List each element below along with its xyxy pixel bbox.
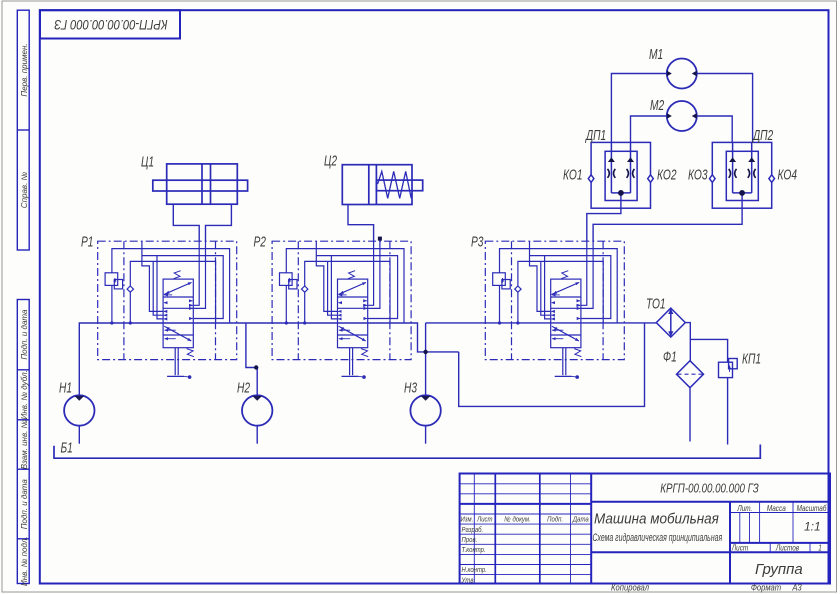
wire: pump H1 suction	[78, 426, 80, 444]
wire: filter F1 drain to tank	[689, 388, 691, 442]
flow divider DP1 with check throttles KO1 KO2	[588, 142, 653, 208]
svg-text:Перв. примен.: Перв. примен.	[20, 43, 29, 96]
valve P3	[485, 241, 624, 379]
left margin graph boxes	[17, 10, 29, 583]
svg-text:Изм.: Изм.	[461, 516, 474, 524]
svg-text:№ докум.: № докум.	[504, 515, 530, 524]
svg-text:М1: М1	[649, 45, 663, 63]
svg-text:Масса: Масса	[767, 503, 786, 513]
title block	[460, 474, 830, 584]
cylinder C2 (spring return)	[342, 165, 422, 205]
tank line B1	[54, 445, 760, 459]
svg-text:Лист: Лист	[731, 543, 748, 553]
pump H2	[242, 395, 272, 425]
relief valve KP1	[719, 359, 738, 378]
svg-text:Б1: Б1	[61, 438, 73, 456]
svg-text:КРГП-00.00.00.000 ГЗ: КРГП-00.00.00.000 ГЗ	[54, 17, 167, 32]
pump H3	[410, 395, 440, 425]
pump H1	[64, 395, 94, 425]
svg-text:КО2: КО2	[657, 165, 676, 183]
motor M2	[667, 101, 697, 131]
svg-text:Н3: Н3	[404, 378, 418, 396]
svg-text:Формат: Формат	[751, 582, 781, 593]
wire: pump H3 suction	[425, 426, 427, 444]
wire: motor M2 right branch	[697, 116, 732, 142]
wire: relief valve KP1 drain to tank	[727, 378, 729, 445]
svg-text:Ф1: Ф1	[663, 347, 677, 365]
svg-text:Р2: Р2	[254, 232, 266, 250]
svg-text:Лит.: Лит.	[736, 503, 752, 513]
svg-text:Разраб.: Разраб.	[462, 525, 484, 534]
svg-text:Листов: Листов	[775, 543, 799, 553]
svg-text:Пров.: Пров.	[462, 536, 478, 544]
wire: pressure line under P3 to cooler TO1	[426, 322, 657, 324]
wire: motor M1 right branch	[697, 74, 753, 143]
wire: pump H2 suction	[256, 426, 258, 444]
svg-text:Копировал: Копировал	[611, 582, 649, 593]
svg-text:Утв.: Утв.	[461, 577, 476, 585]
svg-text:Справ. №: Справ. №	[20, 171, 29, 208]
svg-text:КО4: КО4	[778, 165, 797, 183]
node: junction at H2 branch	[254, 365, 258, 369]
wire: main pressure line from pump H1 under P1 and P2	[79, 323, 458, 395]
valve P2	[272, 241, 411, 379]
wire: cooler TO1 to filter branch	[685, 323, 690, 361]
svg-text:Н.контр.: Н.контр.	[462, 567, 487, 575]
title block texts	[461, 503, 828, 584]
svg-text:КП1: КП1	[742, 349, 761, 367]
svg-text:ТО1: ТО1	[646, 294, 666, 312]
wire: flow divider DP2 output to valve P3	[593, 193, 742, 241]
svg-text:Р1: Р1	[81, 232, 93, 250]
svg-text:КРГП-00.00.00.000 ГЗ: КРГП-00.00.00.000 ГЗ	[660, 483, 759, 496]
filter F1	[677, 361, 704, 388]
svg-text:Дата: Дата	[572, 516, 589, 524]
wire: return loop down to cooler riser	[459, 323, 645, 407]
svg-text:Ц2: Ц2	[324, 151, 337, 169]
svg-text:А3: А3	[791, 582, 802, 593]
valve P1	[98, 241, 237, 379]
wire: flow divider DP1 output to valve P3	[587, 193, 621, 241]
svg-text:Н1: Н1	[59, 378, 72, 396]
wire: cylinder C2 port to valve P2	[348, 205, 374, 242]
svg-text:М2: М2	[650, 96, 664, 114]
wire: cylinder C1 ports to valve P1	[173, 204, 199, 241]
wire: branch to relief valve KP1	[690, 339, 727, 362]
svg-text:Масштаб: Масштаб	[797, 503, 828, 513]
node: junction on H3 riser	[423, 350, 427, 354]
svg-text:Машина мобильная: Машина мобильная	[594, 511, 719, 528]
svg-text:Взам. инв. №: Взам. инв. №	[20, 419, 29, 469]
svg-text:Схема гидравлическая принципиа: Схема гидравлическая принципиальная	[593, 531, 723, 543]
flow divider DP2 with check throttles KO3 KO4	[710, 142, 775, 208]
svg-text:Подп.: Подп.	[547, 515, 563, 524]
wire: motor M1 left branch	[611, 74, 666, 143]
top-left designation stamp	[40, 10, 180, 38]
heat exchanger TO1	[656, 308, 685, 337]
svg-text:ДП2: ДП2	[751, 126, 773, 144]
svg-text:Н2: Н2	[237, 378, 250, 396]
wire: motor M2 left branch	[631, 116, 667, 142]
svg-text:Инв. № дубл.: Инв. № дубл.	[20, 370, 29, 419]
svg-text:Р3: Р3	[471, 232, 484, 250]
svg-text:ДП1: ДП1	[584, 126, 606, 144]
wire: plugged port stub at P2	[379, 239, 381, 242]
svg-text:Подп. и дата: Подп. и дата	[20, 309, 29, 360]
svg-text:Группа: Группа	[755, 561, 803, 578]
svg-text:Подп. и дата: Подп. и дата	[20, 479, 29, 530]
wire: pump H2 branch	[246, 323, 257, 395]
left margin labels	[20, 43, 29, 586]
svg-text:Ц1: Ц1	[141, 152, 154, 170]
motor M1	[667, 59, 697, 89]
cylinder C1 (double rod)	[153, 164, 248, 204]
svg-text:1:1: 1:1	[804, 520, 821, 534]
svg-text:Инв. № подл.: Инв. № подл.	[20, 536, 29, 586]
svg-text:1: 1	[818, 543, 822, 553]
svg-text:Лист: Лист	[476, 516, 493, 524]
wire: pump H3 riser	[425, 323, 427, 395]
svg-text:Т.контр.: Т.контр.	[462, 546, 486, 554]
svg-text:КО3: КО3	[688, 165, 708, 183]
svg-text:КО1: КО1	[563, 165, 582, 183]
